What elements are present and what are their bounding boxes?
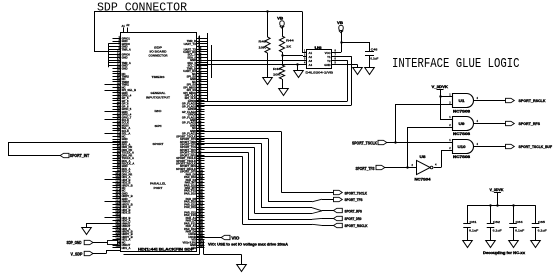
svg-text:10K: 10K	[259, 46, 267, 50]
wire: R44 to R43 with branch to U6	[282, 52, 284, 65]
connector J1 body outline	[121, 33, 197, 252]
svg-text:TMR_A: TMR_A	[122, 47, 131, 51]
wire: SDP_GND to connector	[93, 242, 121, 244]
svg-text:SPORT_INT: SPORT_INT	[70, 153, 90, 158]
connector J1 left pin array (stubs, pin numbers, pin names)	[105, 35, 137, 250]
capacitor C62	[487, 223, 495, 225]
wire: V_3DVK stem to U1/U9 pin1	[440, 90, 442, 119]
ground (below C65)	[531, 241, 541, 248]
wire: right pin bus vertical A	[207, 33, 209, 101]
wire: drop to C65	[535, 205, 537, 223]
svg-text:INPUT/OUTPUT: INPUT/OUTPUT	[146, 95, 170, 99]
wire: U6 pin1 riser from top rail	[302, 11, 304, 52]
wire: VIO stub	[197, 237, 221, 239]
wire: top rail left drop to connector	[94, 11, 96, 51]
svg-text:V_SDP: V_SDP	[71, 252, 83, 257]
svg-text:U8: U8	[420, 155, 426, 159]
svg-text:SPORT_TFS: SPORT_TFS	[356, 166, 375, 171]
svg-text:GND: GND	[122, 55, 128, 59]
inverter U8	[417, 160, 431, 174]
wire: C64 to ground	[513, 228, 515, 241]
wire: C62 to ground	[490, 228, 492, 241]
wire: sport bus segment 2	[197, 138, 268, 140]
wire: U1 output	[474, 100, 506, 102]
net label SPORT_TFS (bus)	[334, 197, 343, 201]
svg-text:SPORT_TSCLK: SPORT_TSCLK	[345, 190, 368, 195]
wire: sport bus segment 6	[197, 156, 243, 158]
wire: VB to U6 VCC and cap rail	[341, 31, 343, 52]
svg-text:U1: U1	[459, 99, 465, 103]
capacitor C61	[463, 223, 471, 225]
wire: bottom-left ground wire	[86, 223, 121, 225]
resistor R43	[279, 65, 284, 79]
capacitor C48	[365, 51, 374, 53]
and-gate U9	[453, 117, 474, 131]
net label SPORT_RFS (glue out)	[506, 121, 515, 125]
svg-text:C64: C64	[516, 220, 523, 224]
wire: drop to C61	[467, 205, 469, 223]
wire: connector to U6 pin4 / ground net	[197, 64, 303, 66]
svg-text:0.1uF: 0.1uF	[469, 229, 478, 233]
wire: R40 top tap	[267, 11, 269, 37]
svg-text:SPORT_RFS: SPORT_RFS	[345, 209, 363, 214]
svg-text:C62: C62	[493, 220, 500, 224]
svg-text:SPORT_TSCLK_BUF: SPORT_TSCLK_BUF	[519, 144, 553, 149]
capacitor C65	[532, 223, 540, 225]
svg-text:HD[1:44] BLACKFIN SDP: HD[1:44] BLACKFIN SDP	[138, 248, 195, 252]
svg-text:0.1uF: 0.1uF	[493, 229, 502, 233]
net label SPORT_INT	[60, 153, 69, 157]
net label SPORT_RFS (bus)	[334, 208, 343, 212]
resistor R40	[265, 37, 270, 53]
svg-text:SPORT_RSCLK: SPORT_RSCLK	[345, 223, 368, 228]
svg-text:SPORT_RFS: SPORT_RFS	[519, 121, 541, 126]
wire: U6 pin6 return to connector	[337, 60, 348, 62]
wire: connector to bottom ground	[203, 240, 205, 254]
wire: U6 pin4 ground drop	[297, 64, 299, 71]
svg-text:PAR_D10: PAR_D10	[184, 191, 196, 195]
svg-text:0.1uF: 0.1uF	[370, 57, 378, 61]
wire: SPORT_TFS to inverter U8	[385, 167, 417, 169]
svg-text:C48: C48	[371, 47, 378, 51]
svg-text:PARALLEL: PARALLEL	[150, 182, 166, 186]
wire: cap C48 to ground	[369, 56, 371, 68]
wire: V_SDP to connector	[93, 253, 106, 255]
wire: decoupling rail	[467, 205, 536, 207]
wire: right pin bus vertical B	[211, 45, 213, 78]
wire: sport bus segment 1	[197, 131, 282, 133]
svg-text:PAR_D11: PAR_D11	[184, 205, 196, 209]
svg-text:VIO: VIO	[231, 236, 240, 241]
resistor R44	[279, 36, 284, 52]
ground (below R40)	[263, 78, 273, 85]
wire: U6 pin7 return to connector	[337, 56, 352, 58]
svg-text:SPORT_TFS: SPORT_TFS	[345, 197, 363, 202]
ground (below C48)	[365, 68, 375, 75]
svg-text:V_3DVK: V_3DVK	[432, 85, 449, 89]
svg-text:GND: GND	[324, 63, 330, 67]
U6 left pin stubs	[303, 52, 307, 54]
wire: cap C48 top	[369, 42, 371, 52]
wire: sport bus segment 4	[197, 147, 255, 149]
wire: drop to C64	[513, 205, 515, 223]
svg-text:TIMERS: TIMERS	[152, 75, 165, 79]
svg-text:SPORT_RSCLK: SPORT_RSCLK	[519, 98, 546, 103]
svg-text:VB: VB	[277, 17, 284, 21]
wire: U10 output	[474, 146, 506, 148]
svg-text:SPORT_TSCLK: SPORT_TSCLK	[352, 141, 377, 146]
ground (below C64)	[509, 241, 519, 248]
wire: riser to U9 pin2	[407, 127, 409, 168]
ground (below C61)	[463, 241, 473, 248]
svg-text:NC7S08: NC7S08	[453, 109, 470, 113]
svg-text:156: 156	[198, 245, 203, 249]
wire: C65 to ground	[535, 228, 537, 241]
level shifter U6 body	[307, 50, 332, 69]
svg-text:U10: U10	[458, 145, 466, 149]
wire: R40 to ground	[267, 53, 269, 77]
wire: SPORT_INT loop	[8, 142, 121, 144]
svg-text:UART_TX: UART_TX	[184, 42, 197, 46]
wire: U6 pin5 to ground	[337, 64, 358, 66]
connector J1 top pins	[123, 28, 125, 33]
svg-text:SPORT_DR0: SPORT_DR0	[345, 216, 363, 221]
connector J1 right pin array (stubs, pin numbers, pin names)	[176, 35, 207, 250]
net label SPORT_DR0 (bus)	[334, 216, 343, 220]
svg-text:VB: VB	[337, 21, 344, 25]
svg-text:NC7S08: NC7S08	[453, 155, 470, 159]
wire: riser to U1 pin2	[395, 104, 397, 142]
wire: sport bus segment 5	[197, 152, 248, 154]
svg-text:VIO: USE to set IO voltage max: VIO: USE to set IO voltage max drive 20m…	[208, 243, 289, 247]
svg-text:A1: A1	[122, 24, 126, 28]
svg-text:A2: A2	[126, 23, 130, 27]
ground (right of U6)	[353, 68, 363, 75]
wire: top rail from title area to U6 pin1 riser	[94, 11, 302, 13]
svg-text:PORT: PORT	[154, 186, 163, 190]
svg-text:R43: R43	[273, 67, 281, 71]
ground (below R43)	[279, 89, 289, 96]
svg-text:SPI: SPI	[155, 124, 162, 128]
wire: U9 output	[474, 123, 506, 125]
svg-text:155: 155	[115, 245, 120, 249]
svg-text:HD3_B: HD3_B	[122, 210, 131, 214]
ground (left of U6)	[294, 71, 304, 78]
svg-text:U9: U9	[459, 122, 465, 126]
svg-text:NC7S04: NC7S04	[415, 178, 431, 182]
svg-text:0.1uF: 0.1uF	[538, 229, 547, 233]
svg-text:GND: GND	[122, 66, 128, 70]
svg-text:NC7S08: NC7S08	[453, 132, 470, 136]
ground (below C62)	[486, 241, 496, 248]
svg-text:CONNECTOR: CONNECTOR	[149, 53, 169, 57]
ground (bottom-centre)	[237, 265, 247, 272]
wire: left pin bus vertical	[108, 43, 110, 67]
svg-text:R44: R44	[286, 38, 294, 42]
connector J1 body shadow lines	[199, 36, 201, 255]
wire: drop to C62	[490, 205, 492, 223]
svg-text:HD1_A: HD1_A	[122, 246, 131, 250]
ground (bottom-left)	[82, 228, 92, 235]
svg-text:0.1uF: 0.1uF	[515, 229, 524, 233]
net label SPORT_TSCLK (bus)	[334, 190, 343, 194]
svg-text:Decoupling for NC-xx: Decoupling for NC-xx	[483, 251, 525, 255]
wire: C61 to ground	[467, 228, 469, 241]
wire: U8 output to U10 pin2	[434, 167, 441, 169]
svg-text:INTERFACE GLUE LOGIC: INTERFACE GLUE LOGIC	[392, 56, 520, 72]
wire: SPORT_TSCLK to gates	[387, 142, 453, 144]
U6 right pin stubs	[332, 52, 337, 54]
svg-text:SPORT: SPORT	[153, 142, 164, 146]
svg-text:V_3DVK: V_3DVK	[490, 188, 505, 192]
svg-text:C65: C65	[538, 220, 545, 224]
bus entry box on SDP_GND wire	[108, 241, 118, 245]
svg-text:D4LS204-1/VB: D4LS204-1/VB	[306, 70, 335, 74]
svg-text:A4: A4	[309, 63, 313, 67]
svg-text:SDP_GND: SDP_GND	[67, 240, 82, 245]
svg-text:C61: C61	[470, 220, 477, 224]
net label SPORT_RSCLK (bus)	[334, 223, 343, 227]
svg-text:SDP CONNECTOR: SDP CONNECTOR	[97, 1, 187, 15]
capacitor C64	[509, 223, 517, 225]
and-gate U1	[453, 94, 474, 108]
wire: R43 to ground	[282, 79, 284, 88]
svg-text:R40: R40	[259, 39, 267, 43]
svg-text:10K: 10K	[273, 73, 281, 77]
wire: connector to U6 pin3	[197, 60, 303, 62]
net label VIO	[221, 235, 230, 239]
net label SPORT_RSCLK (glue out)	[506, 98, 515, 102]
net label SPORT_TSCLK_BUF (glue out)	[506, 144, 515, 148]
and-gate U10	[453, 140, 474, 154]
wire: sport bus segment 3	[197, 143, 261, 145]
svg-text:U6: U6	[315, 46, 322, 50]
